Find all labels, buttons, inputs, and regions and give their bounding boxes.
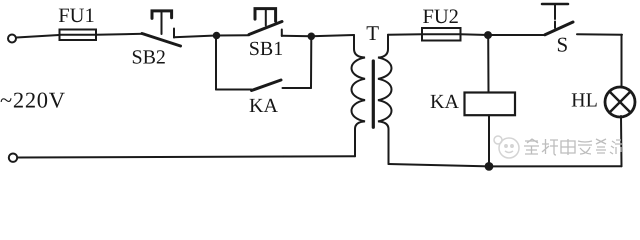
svg-text:SB2: SB2 <box>131 47 165 69</box>
svg-text:KA: KA <box>249 95 278 117</box>
wire node B to transformer <box>311 35 354 36</box>
wire FU2 to node C <box>461 33 489 36</box>
wire FU1 to SB2 <box>96 34 144 35</box>
transformer core <box>372 61 375 127</box>
transformer T secondary winding <box>378 35 392 164</box>
wire lamp down to bottom <box>620 116 623 166</box>
wire secondary top to FU2 <box>388 33 422 36</box>
terminal top-left <box>8 35 16 43</box>
wire KA coil down to node D <box>488 115 490 166</box>
svg-text:SB1: SB1 <box>249 38 283 60</box>
wire KA branch right up to node B <box>310 36 312 88</box>
node C junction dot <box>484 31 492 39</box>
fuse FU1 <box>60 30 97 41</box>
switch S <box>542 4 573 35</box>
pushbutton SB1 (NO) <box>249 9 282 36</box>
svg-text:T: T <box>366 21 379 45</box>
svg-text:S: S <box>556 33 568 57</box>
svg-text:~220V: ~220V <box>0 88 66 113</box>
wire KA branch left horizontal <box>216 89 252 91</box>
node B junction dot <box>308 33 316 41</box>
svg-text:FU1: FU1 <box>58 5 94 27</box>
wire SB2 to node A <box>174 36 216 38</box>
watermark logo <box>494 136 519 158</box>
wire node C down to KA coil <box>487 35 489 93</box>
pushbutton SB2 (NC) <box>142 11 181 46</box>
wire bottom right <box>489 165 622 167</box>
relay contact KA (NO) <box>252 80 282 91</box>
wire S to right edge <box>577 33 622 36</box>
svg-text:FU2: FU2 <box>422 6 458 28</box>
relay coil KA <box>465 93 516 116</box>
lamp HL <box>605 87 635 117</box>
watermark text (6 CJK-like placeholder glyphs) <box>524 139 622 155</box>
wire L1 to FU1 <box>17 35 60 38</box>
wire node A down (KA branch left) <box>215 36 217 90</box>
wire SB1 to node B <box>282 35 312 37</box>
wire node C to switch S <box>488 34 545 36</box>
wire KA branch right horizontal <box>283 87 312 89</box>
wire right edge down to lamp <box>621 35 623 88</box>
fuse FU2 <box>422 28 461 41</box>
terminal bottom-left <box>9 154 17 162</box>
transformer T primary winding <box>352 35 366 156</box>
wire node A to SB1 <box>216 34 249 36</box>
svg-text:HL: HL <box>571 90 598 112</box>
wire bottom left <box>18 156 356 157</box>
node D junction dot <box>485 162 494 171</box>
node A junction dot <box>213 32 221 40</box>
svg-text:KA: KA <box>430 91 459 113</box>
wire bottom to transformer secondary <box>389 164 490 166</box>
